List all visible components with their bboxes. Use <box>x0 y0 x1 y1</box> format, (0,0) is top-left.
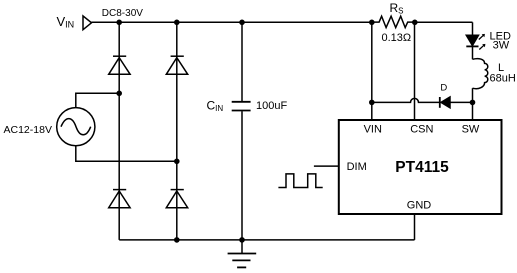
freewheeling diode D (filled, pointing left) <box>440 97 450 108</box>
wire left bridge column <box>118 22 120 240</box>
wire right bridge column <box>176 22 178 240</box>
node SW / diode D <box>470 100 476 106</box>
LED symbol (filled triangle + bar) <box>466 34 485 50</box>
LED arrow 2 <box>479 45 484 49</box>
svg-text:DIM: DIM <box>347 161 367 173</box>
svg-text:PT4115: PT4115 <box>395 159 449 176</box>
node top rail / VIN <box>369 20 375 26</box>
svg-text:AC12-18V: AC12-18V <box>4 124 52 136</box>
svg-text:3W: 3W <box>493 40 510 52</box>
ground symbol <box>228 240 257 268</box>
wire VIN column <box>371 22 373 120</box>
wire AC source top lead <box>76 93 119 107</box>
svg-text:100uF: 100uF <box>256 100 287 112</box>
svg-text:VIN: VIN <box>364 123 382 135</box>
svg-text:68uH: 68uH <box>490 72 516 84</box>
node bottom rail / ground <box>239 237 245 243</box>
wire top rail <box>92 21 473 23</box>
node top rail / right column <box>174 20 180 26</box>
AC source sine wave <box>61 119 91 135</box>
capacitor C_IN plates <box>232 102 251 111</box>
wire freewheeling diode net with hop over CSN column <box>372 98 473 102</box>
bridge diode D1 (top-left) <box>109 56 130 74</box>
svg-text:VIN: VIN <box>57 14 75 30</box>
resistor R_S <box>372 16 415 27</box>
wire CSN column <box>414 22 416 120</box>
AC source circle <box>57 108 95 146</box>
node VIN / diode D <box>369 100 375 106</box>
svg-text:CSN: CSN <box>410 123 433 135</box>
wire C_IN column <box>241 22 243 240</box>
inductor L coil <box>473 59 488 89</box>
bridge diode D4 (bottom-right) <box>166 190 187 208</box>
wire DIM pin lead <box>314 165 339 167</box>
node top rail / C_IN <box>239 20 245 26</box>
wire LED to inductor <box>472 47 474 60</box>
bridge diode D2 (top-right) <box>166 56 187 74</box>
node bottom rail / right column <box>174 237 180 243</box>
svg-text:D: D <box>440 82 447 93</box>
node AC top / left column <box>116 91 122 97</box>
wire GND pin column <box>414 214 416 240</box>
bridge diode D3 (bottom-left) <box>109 190 130 208</box>
LED arrow 1 <box>479 35 484 39</box>
wire SW column upper <box>472 22 474 35</box>
PWM square wave symbol <box>278 174 322 188</box>
wire AC source bottom lead <box>76 146 177 162</box>
svg-text:0.13Ω: 0.13Ω <box>382 32 412 44</box>
IC U1 PT4115 box <box>339 120 502 214</box>
svg-text:DC8-30V: DC8-30V <box>102 8 143 19</box>
wire bottom ground rail <box>119 239 414 241</box>
node top rail / left column <box>116 20 122 26</box>
svg-text:SW: SW <box>462 123 480 135</box>
svg-text:CIN: CIN <box>207 99 224 114</box>
wire inductor to SW pin <box>472 88 474 120</box>
svg-text:RS: RS <box>390 1 404 16</box>
svg-text:GND: GND <box>407 200 432 212</box>
node top rail / CSN <box>412 20 418 26</box>
input port triangle V_IN <box>83 16 92 30</box>
node AC bottom / right column <box>174 159 180 165</box>
